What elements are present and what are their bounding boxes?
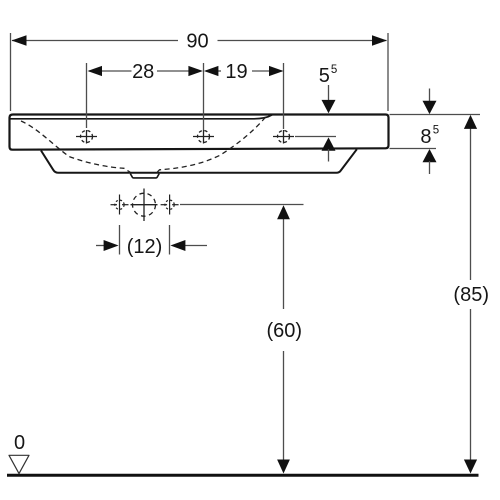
dimension 28 arrow right [188,66,203,76]
dimension 28 arrow left [88,66,103,76]
tap hole 1 [76,130,97,144]
drain symbol [131,189,158,222]
dimension 60 top arrow (up) [277,205,290,219]
dimension 8.5 bottom arrow (up) [423,149,437,162]
dimension 90 extension line right [387,33,389,111]
dimension 12 right arrow (points left) [183,245,207,247]
tap hole axis extension line [295,136,336,138]
floor line [7,474,479,477]
dimension 19 arrow left [204,66,219,76]
dimension 5.5 bottom arrow (up) [322,137,336,150]
tap hole 2 [193,130,214,144]
dimension 90 line [12,40,387,42]
dimension 5.5 top arrow (down) [328,85,330,102]
dimension 90 arrow right [372,35,387,46]
svg-text:19: 19 [225,61,247,83]
dimension 8.5 bottom extension line [390,148,437,150]
dimension 90 extension line left [10,33,12,111]
dimension 28 line [89,70,201,72]
dimension 19 line [206,70,282,72]
svg-text:(12): (12) [127,236,163,258]
dimension 19 extension line 3 [283,63,285,129]
dimension 8.5 top arrow (down) [429,89,431,104]
fixing hole mark left [111,195,129,215]
dimension 90 arrow left [12,35,27,46]
dimension 8.5 top extension line [390,114,481,116]
svg-text:28: 28 [132,61,154,83]
svg-text:(60): (60) [267,320,303,342]
dimension 12 extension line left [119,225,121,255]
dimension 28/19 shared extension line 2 [203,63,205,130]
dimension 85 top arrow (up) [464,115,477,129]
svg-text:0: 0 [14,432,25,454]
svg-text:5: 5 [319,65,330,87]
basin bowl hidden contour (dashed) [21,117,266,172]
dimension 85 line [470,128,472,461]
fixing hole mark right [161,195,179,215]
svg-text:8: 8 [420,126,431,148]
dimension 85 bottom arrow (down) [464,460,477,474]
svg-text:5: 5 [433,125,439,137]
svg-text:(85): (85) [453,284,489,306]
basin rim slab outline [10,115,389,150]
svg-text:5: 5 [331,64,337,76]
dimension 12 left arrow (points right) [96,245,106,247]
dimension 28 extension line 1 [86,63,88,128]
datum triangle [9,455,29,473]
dimension 12 extension line right [169,225,171,255]
basin inner rim line [11,115,273,119]
drain axis leader line [180,204,304,206]
dimension 60 bottom arrow (down) [277,460,290,474]
svg-text:90: 90 [186,31,208,53]
dimension 19 arrow right [269,66,284,76]
tap hole 3 [273,130,294,144]
basin bowl body outline [41,149,357,173]
dimension 60 line [283,218,285,461]
drain boss [130,174,159,178]
